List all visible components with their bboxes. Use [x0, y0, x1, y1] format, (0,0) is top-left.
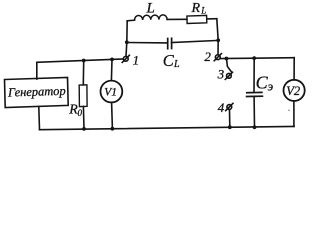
junction V1 top	[110, 58, 114, 62]
inductor L coil	[134, 15, 167, 20]
wire stub node2-wire down to node 3	[227, 59, 232, 72]
terminal node 4	[226, 103, 233, 110]
wire generator bottom down to bottom rail	[38, 107, 41, 130]
junction node3 stub	[225, 57, 229, 61]
wire node 2 to V2 corner	[220, 57, 294, 60]
junction CL left	[125, 40, 129, 44]
svg-text:3: 3	[217, 67, 225, 82]
wire generator top to top rail corner	[36, 62, 38, 79]
junction R0 top	[82, 59, 86, 63]
capacitor Ce bottom plate	[247, 95, 263, 97]
capacitor Ce top plate	[247, 91, 262, 93]
wire CL branch right segment	[172, 40, 219, 42]
wire CL branch left segment	[127, 42, 168, 44]
wire CL junction up to top-left corner of loop	[126, 21, 128, 43]
capacitor Ce branch top wire	[253, 58, 255, 92]
wire Ce bottom	[253, 96, 255, 127]
voltmeter V1 branch top wire	[110, 59, 113, 80]
junction node4 bottom	[228, 125, 232, 129]
junction R0 bottom	[82, 127, 86, 131]
wire V2 top vertical	[293, 58, 295, 80]
resistor R0 body	[79, 85, 87, 107]
generator box	[5, 77, 69, 107]
wire top-left horizontal to node 1	[37, 59, 124, 62]
svg-text:V2: V2	[286, 84, 300, 98]
junction V1 bottom	[111, 127, 115, 131]
svg-text:L: L	[173, 59, 180, 70]
svg-text:2: 2	[204, 49, 211, 64]
svg-text:1: 1	[133, 52, 140, 67]
svg-text:C: C	[163, 51, 175, 70]
wire RL to loop top-right corner	[207, 18, 217, 20]
wire CL right junction down to node 2	[217, 40, 219, 55]
resistor R0 branch top wire	[82, 61, 84, 85]
wire inductor to resistor RL	[167, 18, 187, 20]
svg-text:V1: V1	[104, 87, 117, 99]
junction Ce bottom	[253, 125, 257, 129]
resistor RL body	[187, 15, 207, 23]
svg-text:0: 0	[78, 108, 83, 118]
speck	[288, 110, 290, 112]
svg-text:L: L	[200, 6, 206, 16]
wire bottom rail	[40, 126, 295, 129]
wire R0 bottom	[82, 107, 85, 129]
wire V2 bottom vertical	[293, 101, 295, 126]
wire stub node 4 down to bottom rail	[229, 110, 231, 128]
terminal node 1	[122, 55, 129, 62]
svg-text:L: L	[146, 1, 155, 17]
terminal node 3	[225, 72, 232, 79]
capacitor CL left plate	[167, 39, 169, 49]
wire loop right vertical down to CL junction	[217, 19, 218, 41]
wire V1 bottom	[111, 102, 114, 128]
wire node1 up to CL junction	[125, 42, 128, 56]
capacitor CL right plate	[171, 38, 173, 48]
svg-text:э: э	[268, 79, 274, 93]
svg-text:4: 4	[218, 100, 225, 115]
terminal node 2	[214, 54, 221, 61]
junction Ce top	[252, 56, 256, 60]
wire loop top-left corner to inductor	[127, 19, 134, 22]
voltmeter V2 circle	[284, 80, 305, 101]
svg-text:Генератор: Генератор	[7, 84, 66, 100]
junction CL right	[216, 38, 220, 42]
svg-text:R: R	[191, 1, 201, 16]
voltmeter V1 circle	[101, 81, 123, 103]
